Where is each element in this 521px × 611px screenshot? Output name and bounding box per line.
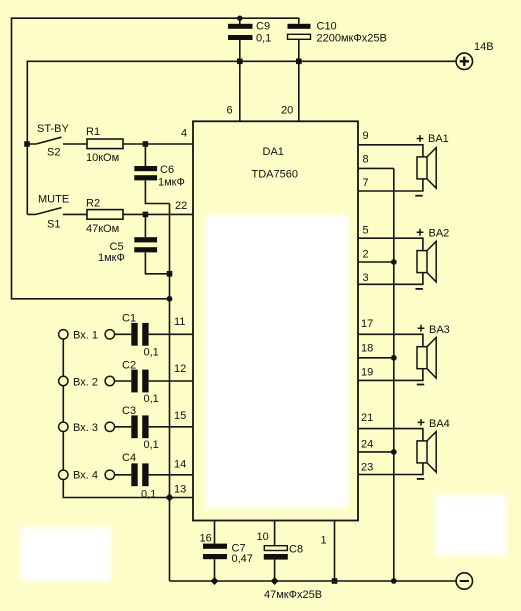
pin 6 label: [227, 105, 233, 117]
svg-text:16: 16: [200, 533, 212, 545]
white patch inside IC: [206, 216, 349, 508]
wire S1 to R2: [63, 213, 87, 215]
pin 3 label: [363, 272, 369, 284]
svg-text:R1: R1: [86, 126, 100, 138]
svg-text:TDA7560: TDA7560: [252, 169, 298, 181]
pin 2 label: [363, 249, 369, 261]
wire pin 16 to C7: [214, 521, 216, 544]
pin 12 label: [174, 363, 186, 375]
capacitor C4 0,1: [122, 452, 156, 501]
svg-text:C1: C1: [122, 313, 136, 325]
input 1 terminals Vx.1: [59, 330, 115, 342]
speaker BA4: [417, 418, 450, 479]
input 3 terminals Vx.3: [59, 422, 115, 434]
svg-text:BA4: BA4: [429, 418, 450, 430]
wire C9 to bus and pin 6: [239, 40, 241, 121]
pin 10 label: [257, 531, 269, 543]
svg-text:9: 9: [363, 130, 369, 142]
svg-text:Вх. 3: Вх. 3: [73, 422, 98, 434]
pin 5 label: [363, 225, 369, 237]
svg-text:20: 20: [281, 105, 293, 117]
svg-text:1: 1: [321, 535, 327, 547]
svg-text:21: 21: [361, 412, 373, 424]
pin 19 label: [361, 367, 373, 379]
node pin18/ground: [391, 355, 397, 361]
wire input4 to C4: [115, 474, 132, 476]
svg-text:15: 15: [174, 410, 186, 422]
svg-text:24: 24: [361, 439, 373, 451]
wire C5 bottom to ground line: [145, 252, 169, 273]
capacitor C2 0,1: [122, 360, 159, 406]
speaker BA1: [415, 133, 448, 196]
svg-text:BA2: BA2: [429, 228, 450, 240]
svg-text:14В: 14В: [474, 41, 494, 53]
svg-text:0,1: 0,1: [141, 489, 156, 501]
svg-text:BA1: BA1: [428, 133, 449, 145]
svg-text:Вх. 1: Вх. 1: [73, 330, 98, 342]
svg-text:2: 2: [363, 249, 369, 261]
wire pin 9 to BA1 plus: [358, 145, 423, 157]
svg-text:14: 14: [174, 459, 186, 471]
svg-text:0,1: 0,1: [144, 347, 159, 359]
pin 1 label: [321, 535, 327, 547]
pin 24 label: [361, 439, 373, 451]
svg-text:19: 19: [361, 367, 373, 379]
resistor R2 47kOm: [86, 198, 123, 236]
wire input3 to C3: [115, 426, 132, 428]
speaker BA2: [416, 228, 450, 289]
wire +14V bus: [27, 61, 456, 214]
input common wire with pin 13: [63, 334, 193, 497]
svg-text:11: 11: [174, 316, 185, 328]
svg-text:10кОм: 10кОм: [86, 152, 119, 164]
capacitor C7 0,47: [203, 543, 253, 566]
wire pin 8 to ground vertical: [358, 167, 394, 169]
pin 21 label: [361, 412, 373, 424]
node C8/ground: [271, 577, 279, 585]
node C7/ground: [211, 577, 219, 585]
capacitor C3 0,1: [122, 405, 159, 451]
node A (top wire / C9): [237, 16, 242, 21]
wire input2 to C2: [115, 380, 132, 382]
capacitor C8 47uF electrolytic: [264, 544, 322, 602]
pin 16 label: [200, 533, 212, 545]
wire C8 to ground rail: [274, 560, 276, 581]
wire pin 17 to BA3 plus: [358, 334, 423, 346]
node R2/C5: [143, 212, 149, 218]
svg-text:C4: C4: [122, 452, 136, 464]
svg-text:18: 18: [361, 343, 373, 355]
pin 4 label: [181, 128, 187, 140]
wire ground vertical right of IC: [393, 168, 395, 581]
svg-text:1мкФ: 1мкФ: [158, 177, 185, 189]
svg-text:47кОм: 47кОм: [86, 223, 119, 235]
pin 11 label: [174, 316, 185, 328]
wire pin 7 to BA1 minus: [358, 179, 423, 191]
node pin2/ground: [391, 259, 397, 265]
pin 22 label: [175, 200, 187, 212]
wire ground rail bottom: [170, 580, 457, 582]
wire ground top loop: [12, 18, 299, 299]
wire pin 19 to BA3 minus: [358, 369, 423, 381]
svg-text:13: 13: [174, 484, 186, 496]
svg-text:S1: S1: [47, 219, 60, 231]
wire S2 to R1: [63, 143, 87, 145]
svg-text:BA3: BA3: [429, 324, 450, 336]
wire pin 23 to BA4 minus: [358, 463, 423, 475]
op-amp U1 IC DA1 TDA7560 body: [193, 121, 358, 520]
pin 8 label: [363, 154, 369, 166]
svg-text:C3: C3: [122, 405, 136, 417]
pin 7 label: [363, 177, 369, 189]
wire R2 to pin 22: [123, 213, 193, 215]
svg-text:Вх. 2: Вх. 2: [73, 376, 98, 388]
svg-text:C10: C10: [317, 21, 337, 33]
wire pin 2 to ground vertical: [358, 261, 394, 263]
capacitor C6 1uF: [134, 144, 185, 189]
svg-text:C2: C2: [122, 360, 136, 372]
node C5/ground: [167, 271, 173, 277]
wire pin 10 to C8: [274, 521, 276, 546]
resistor R1 10kOm: [86, 126, 123, 164]
pin 17 label: [361, 318, 373, 330]
node pin24/ground: [391, 449, 397, 455]
wire C7 to ground rail: [214, 559, 216, 581]
svg-text:1мкФ: 1мкФ: [98, 252, 125, 264]
svg-text:R2: R2: [86, 198, 100, 210]
wire C9 top stub: [239, 18, 241, 24]
svg-text:0,1: 0,1: [144, 439, 159, 451]
speaker BA3: [417, 324, 450, 385]
pin 23 label: [361, 462, 373, 474]
node R1/C6: [143, 141, 149, 147]
wire pin 1 to ground rail: [334, 521, 336, 582]
svg-text:Вх. 4: Вх. 4: [73, 470, 98, 482]
capacitor C1 0,1: [122, 313, 159, 359]
pin 9 label: [363, 130, 369, 142]
pin 20 label: [281, 105, 293, 117]
svg-text:10: 10: [257, 531, 269, 543]
wire pin 24 to ground vertical: [358, 451, 394, 453]
svg-text:23: 23: [361, 462, 373, 474]
svg-text:MUTE: MUTE: [38, 194, 69, 206]
capacitor C10 (electrolytic): [288, 21, 387, 45]
node B (bus / pin6): [237, 59, 243, 65]
wire C10 to bus and pin 20: [298, 39, 300, 121]
wire R1 to pin 4: [123, 143, 193, 145]
svg-text:5: 5: [363, 225, 369, 237]
node C (bus / pin20): [296, 59, 302, 65]
wire pin 21 to BA4 plus: [358, 429, 423, 441]
white patch bottom right: [435, 495, 507, 555]
wire C3 to pin 15: [149, 426, 193, 428]
svg-text:22: 22: [175, 200, 187, 212]
wire C2 to pin 12: [149, 380, 193, 382]
svg-text:0,1: 0,1: [256, 33, 271, 45]
wire pin 3 to BA2 minus: [358, 273, 423, 285]
svg-text:C9: C9: [256, 21, 270, 33]
svg-text:7: 7: [363, 177, 369, 189]
wire C1 to pin 11: [149, 333, 193, 335]
svg-text:6: 6: [227, 105, 233, 117]
node right ground / rail: [391, 578, 397, 584]
pin 18 label: [361, 343, 373, 355]
pin 13 label: [174, 484, 186, 496]
switch S1 MUTE: [27, 194, 69, 231]
terminal +14V: [456, 41, 493, 70]
pin 14 label: [174, 459, 186, 471]
svg-text:47мкФх25В: 47мкФх25В: [264, 589, 322, 601]
svg-text:17: 17: [361, 318, 373, 330]
node ground loop: [167, 296, 173, 302]
capacitor C5 1uF: [98, 214, 157, 264]
wire C4 to pin 14: [149, 474, 193, 476]
svg-text:2200мкФх25В: 2200мкФх25В: [317, 33, 387, 45]
input 4 terminals Vx.4: [59, 470, 115, 482]
wire pin 18 to ground vertical: [358, 357, 394, 359]
switch S2 ST-BY: [27, 123, 70, 159]
svg-text:C8: C8: [289, 544, 303, 556]
node S2 left: [24, 141, 30, 147]
wire input1 to C1: [115, 333, 132, 335]
svg-text:3: 3: [363, 272, 369, 284]
wire ground vertical left of IC: [169, 204, 171, 582]
node input common / ground (diamond): [165, 493, 173, 501]
wire pin 5 to BA2 plus: [358, 238, 423, 250]
white patch bottom left: [21, 528, 112, 582]
wire C6 bottom to ground line: [145, 180, 169, 203]
svg-text:12: 12: [174, 363, 186, 375]
node pin1/ground: [332, 578, 338, 584]
svg-text:C6: C6: [160, 164, 174, 176]
input 2 terminals Vx.2: [59, 376, 115, 388]
svg-text:0,1: 0,1: [144, 393, 159, 405]
capacitor C9: [228, 21, 271, 45]
svg-text:ST-BY: ST-BY: [37, 123, 69, 135]
svg-text:DA1: DA1: [263, 146, 284, 158]
svg-text:4: 4: [181, 128, 187, 140]
terminal minus: [456, 573, 472, 589]
svg-text:0,47: 0,47: [232, 553, 253, 565]
svg-text:8: 8: [363, 154, 369, 166]
pin 15 label: [174, 410, 186, 422]
svg-text:S2: S2: [47, 147, 60, 159]
